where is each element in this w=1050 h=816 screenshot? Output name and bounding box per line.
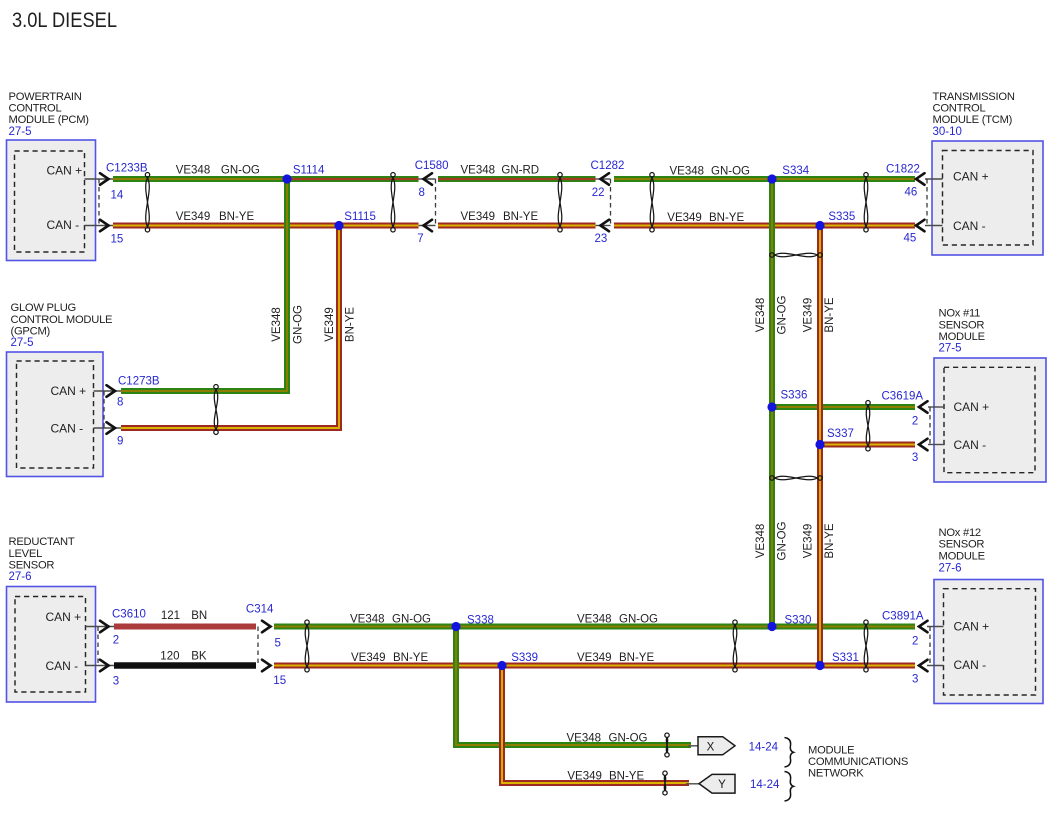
- svg-text:SENSOR: SENSOR: [939, 539, 985, 551]
- svg-text:C3610: C3610: [112, 609, 146, 621]
- svg-text:BN-YE: BN-YE: [393, 652, 428, 664]
- splice S1114: [282, 174, 291, 183]
- svg-text:CONTROL: CONTROL: [9, 103, 62, 115]
- svg-text:POWERTRAIN: POWERTRAIN: [9, 91, 82, 103]
- twisted pair symbol left of C1580: [391, 173, 395, 233]
- X terminator link line: [688, 745, 699, 747]
- wire VE349 BN-YE S335 to S331 vertical: [817, 226, 823, 666]
- connector C1273B dashed line: [103, 391, 105, 428]
- TCM CAN+ stub: [925, 178, 943, 180]
- wire VE348 GN-OG C314 to NOx12: [274, 624, 915, 630]
- C1580 link line row2: [419, 225, 436, 227]
- svg-text:MODULE: MODULE: [808, 745, 854, 757]
- svg-text:14: 14: [111, 189, 124, 201]
- module label PCM: [9, 91, 90, 138]
- module label TCM: [933, 91, 1015, 138]
- svg-text:VE349: VE349: [567, 770, 602, 782]
- svg-text:COMMUNICATIONS: COMMUNICATIONS: [808, 756, 908, 768]
- C1580 link line row1: [419, 178, 436, 180]
- wire VE348 GN-OG S334 to S330 vertical: [769, 179, 775, 627]
- wire VE348 GN-OG PCM to S1114: [113, 176, 287, 182]
- svg-text:VE348: VE348: [755, 298, 767, 333]
- splice S331: [815, 661, 824, 670]
- module box PCM: [7, 140, 96, 261]
- connector C3619A dashed line: [929, 407, 931, 445]
- twisted pair symbol top-left: [145, 173, 149, 233]
- svg-text:121: 121: [161, 610, 180, 622]
- svg-text:MODULE: MODULE: [939, 550, 985, 562]
- C1822 arrow row1: [916, 173, 925, 185]
- module box RLS: [7, 587, 96, 703]
- svg-text:GN-OG: GN-OG: [221, 165, 260, 177]
- wire 120 BK RLS to C314: [114, 662, 256, 669]
- wire VE348 GN-OG C1282 to TCM: [614, 176, 915, 182]
- svg-text:30-10: 30-10: [933, 126, 962, 138]
- C1233B arrow row2: [100, 220, 109, 232]
- TCM CAN- stub: [925, 225, 943, 227]
- C3891A arrow row2: [919, 660, 928, 672]
- svg-text:VE348: VE348: [755, 524, 767, 559]
- wire VE349 BN-YE S339 to Y terminator: [502, 666, 689, 784]
- twisted pair symbol right vertical upper: [770, 253, 823, 257]
- svg-text:TRANSMISSION: TRANSMISSION: [933, 91, 1015, 103]
- twist symbol Y lead: [663, 771, 667, 795]
- svg-text:BN: BN: [191, 610, 207, 622]
- twisted pair symbol right of C314: [305, 620, 309, 672]
- NOx11 CAN+ stub: [928, 406, 944, 408]
- svg-text:CONTROL MODULE: CONTROL MODULE: [11, 314, 113, 326]
- connector C3610 dashed line: [97, 627, 99, 666]
- svg-text:VE349: VE349: [324, 307, 336, 342]
- RLS CAN+ stub: [86, 626, 115, 628]
- twist symbol X lead: [665, 733, 669, 757]
- svg-text:15: 15: [111, 233, 124, 245]
- module label NOx 11: [939, 308, 985, 355]
- svg-text:8: 8: [117, 397, 123, 409]
- connector C3891A dashed line: [929, 627, 931, 666]
- svg-text:S335: S335: [828, 211, 855, 223]
- wire VE349 BN-YE S337 branch to NOx11: [820, 442, 915, 448]
- C1282 arrow row2: [601, 220, 610, 232]
- twisted pair symbol GPCM pair: [214, 385, 218, 435]
- svg-text:VE349: VE349: [803, 298, 815, 333]
- C1273B arrow row1: [107, 385, 116, 397]
- svg-text:22: 22: [592, 187, 605, 199]
- svg-text:VE349: VE349: [461, 211, 496, 223]
- svg-text:NETWORK: NETWORK: [808, 768, 864, 780]
- svg-text:GN-OG: GN-OG: [293, 305, 305, 344]
- svg-text:C1282: C1282: [591, 160, 625, 172]
- svg-text:C1580: C1580: [415, 160, 449, 172]
- wire VE349 BN-YE C1282 to TCM: [614, 223, 915, 229]
- svg-text:CAN -: CAN -: [953, 219, 986, 233]
- splice S335: [815, 221, 824, 230]
- wire VE349 BN-YE PCM to C1580: [113, 223, 419, 229]
- svg-text:MODULE (PCM): MODULE (PCM): [9, 114, 90, 126]
- C3619A arrow row1: [919, 401, 928, 413]
- svg-text:CAN -: CAN -: [954, 438, 987, 452]
- svg-text:S330: S330: [785, 615, 812, 627]
- svg-text:CAN +: CAN +: [47, 163, 83, 177]
- C1282 link line row2: [596, 225, 611, 227]
- svg-text:MODULE (TCM): MODULE (TCM): [933, 114, 1013, 126]
- C1282 arrow row1: [601, 173, 610, 185]
- svg-text:X: X: [707, 741, 715, 753]
- svg-text:CONTROL: CONTROL: [933, 103, 986, 115]
- svg-text:S339: S339: [511, 652, 538, 664]
- svg-text:5: 5: [275, 638, 281, 650]
- svg-text:VE349: VE349: [176, 211, 211, 223]
- svg-text:BN-YE: BN-YE: [609, 770, 644, 782]
- svg-text:S336: S336: [781, 389, 808, 401]
- splice S339: [497, 661, 506, 670]
- svg-text:GN-OG: GN-OG: [776, 295, 788, 334]
- svg-text:CAN -: CAN -: [51, 421, 84, 435]
- svg-text:REDUCTANT: REDUCTANT: [9, 536, 75, 548]
- svg-text:BN-YE: BN-YE: [503, 211, 538, 223]
- C3891A arrow row1: [919, 621, 928, 633]
- wire VE349 BN-YE C1580 to C1282: [438, 223, 596, 229]
- splice S330: [767, 622, 776, 631]
- splice S336: [767, 402, 776, 411]
- svg-text:9: 9: [117, 435, 123, 447]
- svg-text:BN-YE: BN-YE: [824, 297, 836, 332]
- C1580 arrow row1: [424, 173, 433, 185]
- svg-text:CAN -: CAN -: [954, 658, 987, 672]
- svg-text:27-5: 27-5: [939, 343, 962, 355]
- svg-text:BN-YE: BN-YE: [345, 307, 357, 342]
- svg-text:S1115: S1115: [344, 211, 376, 223]
- svg-text:GN-OG: GN-OG: [776, 521, 788, 560]
- NOx12 CAN+ stub: [927, 626, 944, 628]
- svg-text:C1273B: C1273B: [118, 375, 160, 387]
- twisted pair symbol C1580-C1282: [558, 173, 562, 233]
- svg-text:CAN +: CAN +: [954, 620, 990, 634]
- svg-text:GN-OG: GN-OG: [711, 166, 750, 178]
- twisted pair symbol C1282-S334: [650, 173, 654, 233]
- NOx12 CAN- stub: [927, 665, 944, 667]
- splice S338: [451, 622, 460, 631]
- svg-text:VE348: VE348: [176, 165, 211, 177]
- wire VE349 BN-YE C314 to NOx12: [274, 663, 915, 669]
- GPCM CAN+ stub: [94, 390, 122, 392]
- brace Y: [785, 772, 794, 802]
- svg-text:S1114: S1114: [293, 164, 325, 176]
- module box GPCM: [7, 352, 104, 477]
- svg-text:BK: BK: [191, 651, 207, 663]
- svg-text:CAN +: CAN +: [953, 170, 989, 184]
- svg-text:3: 3: [113, 675, 119, 687]
- twisted pair symbol bottom right: [864, 620, 868, 672]
- module box NOx 12: [934, 580, 1043, 704]
- svg-text:23: 23: [595, 233, 608, 245]
- svg-text:VE348: VE348: [461, 165, 496, 177]
- GPCM CAN- stub: [94, 427, 122, 429]
- Y terminator link line: [686, 783, 700, 785]
- svg-text:C1233B: C1233B: [106, 163, 148, 175]
- C314 arrow row1: [262, 621, 271, 633]
- svg-text:S338: S338: [467, 615, 494, 627]
- svg-text:BN-YE: BN-YE: [824, 523, 836, 558]
- brace X: [785, 738, 794, 768]
- splice S337: [815, 440, 824, 449]
- twisted pair symbol right vertical lower: [770, 476, 823, 480]
- wire VE348 GN-RD S1114 to C1580: [287, 176, 419, 182]
- svg-text:2: 2: [912, 635, 918, 647]
- PCM CAN+ stub: [85, 178, 114, 180]
- svg-text:46: 46: [905, 187, 918, 199]
- module box TCM: [932, 141, 1043, 255]
- svg-text:GN-OG: GN-OG: [619, 613, 658, 625]
- connector C1580 dashed line: [435, 179, 437, 226]
- svg-text:S331: S331: [832, 652, 859, 664]
- C3619A arrow row2: [919, 439, 928, 451]
- svg-text:CAN -: CAN -: [46, 659, 79, 673]
- svg-text:MODULE: MODULE: [939, 331, 985, 343]
- svg-text:2: 2: [113, 635, 119, 647]
- RLS CAN- stub: [86, 665, 115, 667]
- twisted pair symbol S335-C1822: [864, 173, 868, 233]
- svg-text:27-6: 27-6: [9, 571, 32, 583]
- module label RLS: [9, 536, 75, 583]
- module box NOx 11: [934, 358, 1046, 482]
- splice S334: [767, 174, 776, 183]
- wire VE348 GN-OG S336 branch to NOx11: [772, 404, 915, 410]
- C1273B arrow row2: [107, 422, 116, 434]
- off-page connector X: [698, 737, 735, 755]
- svg-text:14-24: 14-24: [750, 779, 780, 791]
- C1580 arrow row2: [424, 220, 433, 232]
- svg-text:GN-RD: GN-RD: [501, 165, 539, 177]
- svg-text:VE349: VE349: [803, 524, 815, 559]
- off-page connector Y: [699, 774, 735, 793]
- NOx11 CAN- stub: [928, 444, 944, 446]
- wire 121 BN RLS to C314: [114, 624, 256, 630]
- connector C1282 dashed line: [610, 179, 612, 226]
- svg-text:27-6: 27-6: [939, 562, 962, 574]
- svg-text:(GPCM): (GPCM): [11, 325, 51, 337]
- svg-text:3.0L DIESEL: 3.0L DIESEL: [12, 8, 117, 32]
- connector C1233B dashed line: [98, 179, 100, 226]
- svg-text:SENSOR: SENSOR: [9, 559, 55, 571]
- svg-text:VE348: VE348: [567, 732, 602, 744]
- svg-text:VE348: VE348: [350, 613, 385, 625]
- svg-text:S334: S334: [782, 165, 809, 177]
- svg-text:VE348: VE348: [271, 307, 283, 342]
- svg-text:NOx #12: NOx #12: [939, 527, 981, 539]
- svg-text:BN-YE: BN-YE: [709, 212, 744, 224]
- svg-text:CAN +: CAN +: [46, 610, 82, 624]
- svg-text:C314: C314: [246, 604, 274, 616]
- svg-text:CAN +: CAN +: [51, 384, 87, 398]
- C1233B arrow row1: [100, 173, 109, 185]
- svg-text:3: 3: [912, 452, 918, 464]
- twisted pair symbol NOx11 branch pair: [866, 401, 870, 451]
- twisted pair symbol bottom mid: [733, 620, 737, 672]
- svg-text:BN-YE: BN-YE: [619, 652, 654, 664]
- svg-text:BN-YE: BN-YE: [219, 211, 254, 223]
- svg-text:C3891A: C3891A: [882, 611, 924, 623]
- svg-text:7: 7: [417, 233, 423, 245]
- svg-text:VE349: VE349: [351, 652, 386, 664]
- svg-text:VE348: VE348: [670, 166, 705, 178]
- svg-text:Y: Y: [718, 779, 726, 791]
- module label NOx 12: [939, 527, 985, 574]
- svg-text:CAN +: CAN +: [954, 400, 990, 414]
- wire VE348 GN-RD C1580 to C1282: [438, 176, 596, 182]
- label module communications network: [808, 745, 908, 780]
- svg-text:CAN -: CAN -: [47, 218, 80, 232]
- svg-text:LEVEL: LEVEL: [9, 548, 43, 560]
- svg-text:C3619A: C3619A: [882, 390, 924, 402]
- svg-text:SENSOR: SENSOR: [939, 319, 985, 331]
- svg-text:8: 8: [419, 187, 425, 199]
- svg-text:GN-OG: GN-OG: [392, 613, 431, 625]
- wire VE349 BN-YE S1115 to GPCM: [121, 226, 339, 429]
- svg-text:14-24: 14-24: [749, 742, 779, 754]
- svg-text:45: 45: [904, 233, 917, 245]
- svg-text:VE349: VE349: [667, 212, 702, 224]
- svg-text:15: 15: [273, 675, 286, 687]
- svg-text:120: 120: [160, 651, 179, 663]
- svg-text:NOx #11: NOx #11: [939, 308, 981, 320]
- splice S1115: [334, 221, 343, 230]
- svg-text:27-5: 27-5: [11, 337, 34, 349]
- C3610 arrow row2: [100, 660, 109, 672]
- connector C314 dashed line: [257, 627, 259, 666]
- module label GPCM: [11, 302, 113, 349]
- svg-text:GN-OG: GN-OG: [609, 732, 648, 744]
- svg-text:C1822: C1822: [886, 163, 920, 175]
- C3610 arrow row1: [100, 621, 109, 633]
- wire VE348 GN-OG S1114 to GPCM: [121, 179, 287, 391]
- connector C1822 dashed line: [926, 179, 928, 226]
- svg-text:S337: S337: [827, 428, 854, 440]
- C1822 arrow row2: [916, 220, 925, 232]
- svg-text:GLOW PLUG: GLOW PLUG: [11, 302, 77, 314]
- svg-text:3: 3: [912, 673, 918, 685]
- C314 arrow row2: [262, 660, 271, 672]
- PCM CAN- stub: [85, 225, 114, 227]
- wire VE348 GN-OG S338 to X terminator: [456, 627, 691, 746]
- svg-text:27-5: 27-5: [9, 126, 32, 138]
- svg-text:VE348: VE348: [577, 613, 612, 625]
- svg-text:2: 2: [912, 416, 918, 428]
- svg-text:VE349: VE349: [577, 652, 612, 664]
- C1282 link line row1: [596, 178, 611, 180]
